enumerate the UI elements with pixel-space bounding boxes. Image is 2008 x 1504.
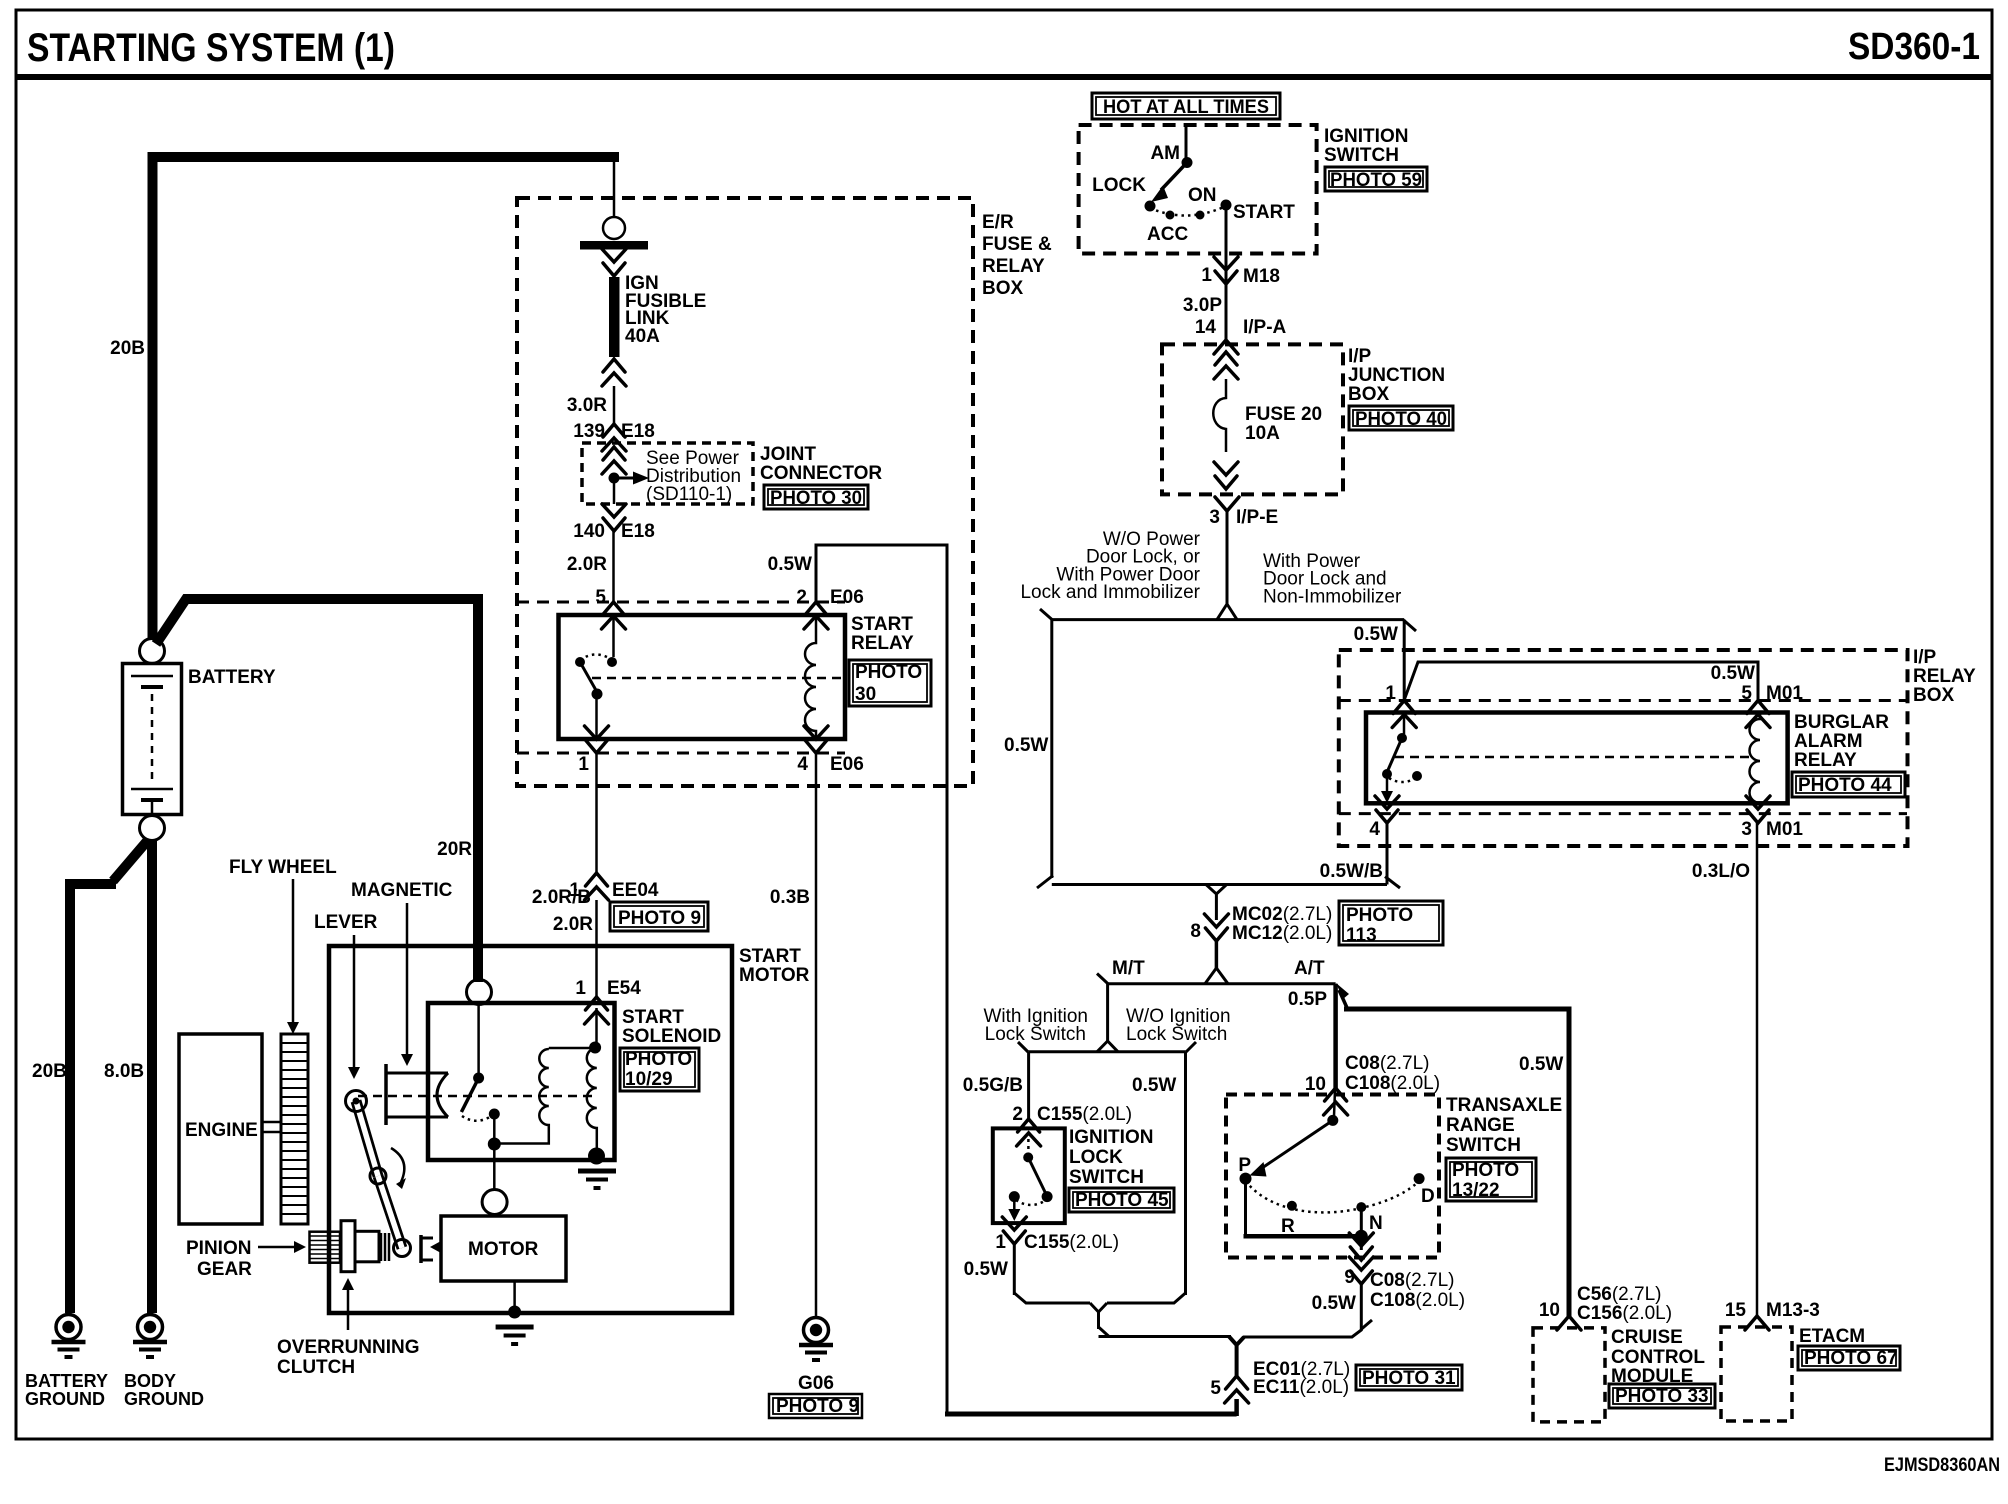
PHOTO 40 box — [1349, 406, 1453, 430]
connector 2 C155 — [1017, 1119, 1041, 1146]
svg-text:C155(2.0L): C155(2.0L) — [1024, 1232, 1119, 1253]
svg-text:RELAY: RELAY — [982, 256, 1045, 277]
fuse output chevrons — [1214, 462, 1238, 489]
corner tick — [1362, 1320, 1373, 1329]
svg-text:SWITCH: SWITCH — [1446, 1135, 1521, 1156]
wire 3.0R — [613, 386, 616, 424]
svg-text:GEAR: GEAR — [197, 1259, 252, 1280]
wire 8.0B to body ground (thick) — [147, 840, 157, 1313]
connector pin 1 — [585, 726, 609, 753]
svg-text:4: 4 — [1369, 819, 1380, 840]
branch fork — [1217, 604, 1237, 620]
connector 14 I/P-A — [1214, 340, 1238, 354]
busbar — [580, 241, 648, 250]
connector 8 MC02/MC12 — [1204, 914, 1228, 941]
transaxle range switch box (dashed) — [1226, 1095, 1439, 1258]
svg-text:Lock Switch: Lock Switch — [985, 1024, 1086, 1045]
node circle at fusible link input — [613, 160, 616, 217]
svg-text:2.0R/B: 2.0R/B — [532, 887, 591, 908]
start solenoid box — [428, 1003, 615, 1160]
PHOTO 30 box (start relay) — [849, 660, 931, 706]
svg-text:BURGLAR: BURGLAR — [1794, 712, 1889, 733]
svg-text:I/P-E: I/P-E — [1236, 507, 1278, 528]
svg-text:BOX: BOX — [1913, 685, 1955, 706]
connector 140 E18 — [602, 504, 626, 531]
bus end ticks — [1018, 1042, 1196, 1052]
svg-text:0.5W: 0.5W — [1519, 1054, 1563, 1075]
svg-text:RANGE: RANGE — [1446, 1115, 1515, 1136]
overrunning clutch body — [341, 1221, 389, 1272]
title bar separator line — [15, 74, 1993, 80]
burglar relay coil — [1750, 712, 1761, 803]
connector chevrons below fusible link — [602, 359, 626, 386]
merge tick left — [1037, 876, 1053, 889]
E/R fuse and relay box (dashed) — [517, 198, 973, 786]
N junction dot — [1355, 1230, 1368, 1243]
svg-text:(SD110-1): (SD110-1) — [646, 484, 732, 505]
svg-text:PHOTO 67: PHOTO 67 — [1804, 1348, 1898, 1369]
battery — [123, 664, 182, 816]
fusible link IGN 40A (solid bar) — [609, 277, 620, 357]
ignition lock switch box — [993, 1128, 1065, 1223]
svg-text:RELAY: RELAY — [1913, 666, 1976, 687]
svg-text:PHOTO: PHOTO — [1452, 1160, 1519, 1181]
svg-text:0.5W: 0.5W — [768, 554, 812, 575]
svg-text:HOT AT ALL TIMES: HOT AT ALL TIMES — [1103, 97, 1269, 118]
svg-text:IGNITION: IGNITION — [1069, 1127, 1153, 1148]
transaxle switch internals — [1240, 1090, 1425, 1212]
start relay internal dashed line — [592, 677, 843, 680]
svg-text:Lock Switch: Lock Switch — [1126, 1024, 1227, 1045]
svg-text:13/22: 13/22 — [1452, 1180, 1500, 1201]
pinion gear (hatched) — [310, 1232, 341, 1263]
svg-text:3.0P: 3.0P — [1183, 295, 1222, 316]
engine-flywheel link — [262, 1121, 281, 1124]
svg-text:ENGINE: ENGINE — [185, 1120, 258, 1141]
burglar relay switch — [1381, 712, 1422, 803]
connector pin 5 — [602, 602, 626, 629]
svg-text:PHOTO: PHOTO — [1346, 905, 1413, 926]
wire 20B battery positive feed (thick) — [153, 152, 620, 640]
magnetic plunger bracket — [386, 1064, 448, 1125]
connector 3 I/P-E — [1215, 497, 1239, 511]
svg-text:A/T: A/T — [1294, 958, 1325, 979]
burglar relay internal dashed line — [1395, 756, 1750, 759]
svg-text:FUSE 20: FUSE 20 — [1245, 404, 1322, 425]
svg-text:PINION: PINION — [186, 1238, 251, 1259]
HOT AT ALL TIMES box — [1092, 93, 1280, 119]
svg-text:20R: 20R — [437, 839, 472, 860]
svg-text:M01: M01 — [1766, 683, 1803, 704]
svg-text:C08(2.7L): C08(2.7L) — [1370, 1270, 1455, 1291]
svg-text:0.5W: 0.5W — [1312, 1293, 1356, 1314]
PHOTO 113 box — [1339, 901, 1443, 945]
PHOTO 67 box — [1798, 1346, 1900, 1370]
svg-text:M/T: M/T — [1112, 958, 1145, 979]
M01 upper connector row (dashed) — [1339, 699, 1907, 702]
PHOTO 59 box — [1325, 167, 1427, 191]
start relay coil — [805, 615, 816, 739]
PHOTO 13/22 box — [1446, 1158, 1536, 1201]
joint connector internals — [602, 447, 626, 474]
connector 9 C08/C108 — [1349, 1257, 1373, 1284]
svg-text:R: R — [1281, 1216, 1295, 1237]
wire from START contact — [1225, 205, 1228, 284]
I/P relay box (dashed) — [1339, 650, 1908, 846]
svg-text:START: START — [622, 1007, 684, 1028]
svg-text:I/P-A: I/P-A — [1243, 317, 1287, 338]
svg-text:10: 10 — [1305, 1074, 1326, 1095]
PHOTO 33 box — [1609, 1384, 1715, 1408]
svg-text:2.0R: 2.0R — [567, 554, 607, 575]
svg-text:15: 15 — [1725, 1300, 1747, 1321]
wire 3.0P — [1225, 284, 1228, 340]
svg-text:BOX: BOX — [982, 278, 1024, 299]
svg-text:D: D — [1421, 1186, 1435, 1207]
svg-text:0.5W/B: 0.5W/B — [1320, 861, 1383, 882]
svg-text:EJMSD8360AN: EJMSD8360AN — [1884, 1455, 2000, 1476]
ignition lock fork — [1097, 1041, 1118, 1052]
svg-text:113: 113 — [1346, 925, 1377, 946]
wire 0.5W/B from pin 4 — [1386, 823, 1389, 885]
svg-text:2.0R: 2.0R — [553, 914, 593, 935]
svg-text:START: START — [851, 614, 913, 635]
svg-text:JUNCTION: JUNCTION — [1348, 365, 1445, 386]
connector pin 1 — [1392, 701, 1416, 728]
svg-text:3: 3 — [1209, 507, 1220, 528]
svg-text:START: START — [739, 946, 801, 967]
svg-text:20B: 20B — [110, 338, 145, 359]
joint connector box (dashed) — [582, 443, 753, 504]
svg-text:ALARM: ALARM — [1794, 731, 1863, 752]
ignition lock switch internals — [1008, 1132, 1052, 1221]
wire 2.0R to start relay — [612, 531, 615, 602]
body ground symbol — [133, 1315, 167, 1358]
svg-text:Lock and Immobilizer: Lock and Immobilizer — [1020, 582, 1200, 603]
svg-text:RELAY: RELAY — [851, 633, 914, 654]
svg-text:E/R: E/R — [982, 212, 1014, 233]
engine box — [179, 1034, 262, 1224]
merge bus wire 0.5W/0.5WB — [1052, 883, 1387, 886]
motor box — [441, 1216, 566, 1281]
wire from connector 9 to EC01 funnel — [1243, 1284, 1361, 1337]
ignition switch box (dashed) — [1079, 125, 1317, 254]
svg-text:M13-3: M13-3 — [1766, 1300, 1820, 1321]
I/P junction box (dashed) — [1162, 344, 1343, 494]
PHOTO 10/29 box — [620, 1048, 699, 1091]
svg-text:10A: 10A — [1245, 423, 1280, 444]
svg-text:M01: M01 — [1766, 819, 1803, 840]
wire 0.3L/O from pin 3 to ETACM — [1756, 823, 1759, 1316]
wire connector 5 to bottom loop — [1234, 1399, 1239, 1416]
coil top junction dot — [589, 1042, 601, 1054]
branch left tick — [1040, 609, 1053, 620]
svg-text:BATTERY: BATTERY — [25, 1371, 108, 1391]
PHOTO 9 box (EE04) — [610, 902, 708, 931]
wire 2.0R to E54 — [595, 900, 598, 997]
svg-text:PHOTO 9: PHOTO 9 — [776, 1396, 859, 1417]
left 0.5W branch wire — [1050, 620, 1053, 878]
ignition lock left wire 0.5G/B — [1027, 1052, 1030, 1119]
W/O ignition lock wire — [1184, 1052, 1187, 1295]
svg-text:C08(2.7L): C08(2.7L) — [1345, 1053, 1430, 1074]
svg-text:SWITCH: SWITCH — [1324, 145, 1399, 166]
svg-text:TRANSAXLE: TRANSAXLE — [1446, 1095, 1562, 1116]
svg-text:10: 10 — [1539, 1300, 1560, 1321]
svg-text:IGNITION: IGNITION — [1324, 126, 1408, 147]
ignition switch internals — [1145, 125, 1232, 220]
svg-text:1: 1 — [578, 754, 589, 775]
connector 1 EE04 — [585, 873, 609, 900]
battery ground symbol — [52, 1315, 86, 1358]
label W/O Power Door Lock, or With Power Door Lock and Immobilizer — [1020, 529, 1200, 603]
junction box input chevrons — [1214, 352, 1238, 379]
solenoid internal dashed axis — [358, 1095, 592, 1098]
svg-text:PHOTO 9: PHOTO 9 — [618, 908, 701, 929]
svg-text:SWITCH: SWITCH — [1069, 1167, 1144, 1188]
svg-text:START: START — [1233, 202, 1295, 223]
svg-text:PHOTO: PHOTO — [855, 662, 922, 683]
svg-text:I/P: I/P — [1913, 647, 1937, 668]
svg-text:LEVER: LEVER — [314, 912, 378, 933]
wire 20B to battery ground (thick) — [70, 840, 148, 1313]
svg-text:PHOTO: PHOTO — [625, 1049, 692, 1070]
motor ground symbol — [496, 1327, 534, 1344]
solenoid switch — [461, 1004, 500, 1151]
svg-text:1: 1 — [575, 978, 586, 999]
svg-text:JOINT: JOINT — [760, 444, 816, 465]
svg-text:20B: 20B — [32, 1061, 67, 1082]
start relay box — [559, 615, 846, 739]
svg-text:5: 5 — [595, 587, 606, 608]
svg-text:0.5P: 0.5P — [1288, 989, 1327, 1010]
coil bottom ground dot — [588, 1148, 605, 1165]
svg-text:CONTROL: CONTROL — [1611, 1347, 1705, 1368]
svg-text:E54: E54 — [607, 978, 641, 999]
svg-text:2: 2 — [796, 587, 807, 608]
svg-text:140: 140 — [573, 521, 605, 542]
solenoid pull coil (right) — [587, 1008, 597, 1151]
branch right tick — [1404, 620, 1417, 631]
fork left tick — [1097, 974, 1108, 985]
svg-text:C156(2.0L): C156(2.0L) — [1577, 1303, 1672, 1324]
svg-text:BODY: BODY — [124, 1371, 176, 1391]
pinion shaft fork — [421, 1235, 441, 1263]
wire 0.3B from pin4 to G06 — [815, 753, 818, 1317]
PHOTO 31 box — [1356, 1365, 1462, 1390]
svg-text:C56(2.7L): C56(2.7L) — [1577, 1284, 1662, 1305]
svg-text:PHOTO 45: PHOTO 45 — [1075, 1190, 1169, 1211]
wire from I/P-E to branch — [1226, 511, 1229, 606]
svg-text:0.5W: 0.5W — [1354, 624, 1398, 645]
M/T A/T fork — [1205, 968, 1228, 984]
svg-text:0.3L/O: 0.3L/O — [1692, 861, 1750, 882]
branch bus wire — [1052, 618, 1404, 621]
wire 0.5W below ignition lock switch — [1013, 1244, 1016, 1295]
svg-text:0.5W: 0.5W — [1004, 735, 1048, 756]
svg-text:139: 139 — [573, 421, 605, 442]
svg-text:G06: G06 — [798, 1373, 834, 1394]
merge tick right — [1385, 877, 1400, 889]
ETACM box (dashed) — [1721, 1327, 1792, 1421]
svg-text:5: 5 — [1210, 1378, 1221, 1399]
svg-text:M18: M18 — [1243, 266, 1280, 287]
svg-text:C108(2.0L): C108(2.0L) — [1370, 1290, 1465, 1311]
connector pin 4 E06 — [804, 726, 828, 753]
svg-text:PHOTO 40: PHOTO 40 — [1355, 409, 1447, 430]
svg-text:CRUISE: CRUISE — [1611, 1327, 1683, 1348]
svg-text:FLY WHEEL: FLY WHEEL — [229, 857, 337, 878]
svg-text:Non-Immobilizer: Non-Immobilizer — [1263, 586, 1402, 607]
0.5W thick feed wire to cruise control — [1344, 1009, 1569, 1316]
start relay switch — [575, 615, 617, 739]
connector pin 3 M01 — [1746, 796, 1770, 823]
connector pin 2 E06 — [804, 602, 828, 629]
svg-text:9: 9 — [1344, 1267, 1355, 1288]
fuse 20 symbol — [1213, 379, 1226, 452]
connector 1 E54 — [585, 997, 609, 1024]
EC01 funnel — [1229, 1337, 1244, 1377]
fork bus wire — [1108, 982, 1336, 985]
svg-text:1: 1 — [995, 1232, 1006, 1253]
label With Power Door Lock and Non-Immobilizer — [1263, 551, 1402, 607]
motor node circle — [493, 1150, 496, 1191]
svg-text:5: 5 — [1741, 683, 1752, 704]
svg-text:E18: E18 — [621, 521, 655, 542]
svg-text:I/P: I/P — [1348, 346, 1372, 367]
P to N wire — [1244, 1183, 1247, 1236]
connector 5 EC01/EC11 — [1225, 1376, 1249, 1403]
connector 1 M18 — [1214, 257, 1238, 284]
svg-text:E18: E18 — [621, 421, 655, 442]
E06 connector row (dashed) — [517, 601, 845, 604]
N output wire — [1360, 1236, 1363, 1250]
svg-text:0.5W: 0.5W — [964, 1259, 1008, 1280]
svg-text:GROUND: GROUND — [25, 1389, 105, 1409]
svg-text:10/29: 10/29 — [625, 1069, 673, 1090]
svg-text:3.0R: 3.0R — [567, 395, 607, 416]
connector 15 M13-3 — [1745, 1316, 1769, 1330]
svg-text:PHOTO 44: PHOTO 44 — [1798, 775, 1892, 796]
svg-text:EC11(2.0L): EC11(2.0L) — [1253, 1377, 1349, 1398]
svg-text:E06: E06 — [830, 754, 864, 775]
battery bottom terminal node — [140, 816, 165, 841]
svg-text:1: 1 — [1201, 265, 1212, 286]
svg-text:GROUND: GROUND — [124, 1389, 204, 1409]
right 0.5W branch wire — [1403, 620, 1406, 701]
svg-text:FUSE &: FUSE & — [982, 234, 1052, 255]
connector pin 4 — [1375, 796, 1399, 823]
svg-text:4: 4 — [797, 754, 808, 775]
svg-text:8: 8 — [1190, 921, 1201, 942]
svg-text:OVERRUNNING: OVERRUNNING — [277, 1337, 420, 1358]
svg-text:PHOTO 33: PHOTO 33 — [1615, 1386, 1709, 1407]
svg-text:2: 2 — [1012, 1104, 1023, 1125]
svg-text:SOLENOID: SOLENOID — [622, 1026, 721, 1047]
svg-text:RELAY: RELAY — [1794, 750, 1857, 771]
svg-text:C155(2.0L): C155(2.0L) — [1037, 1104, 1132, 1125]
lever rotation arrow — [391, 1148, 404, 1182]
PHOTO 30 box (joint connector) — [764, 485, 868, 509]
wire 2.0R/B down to EE04 — [595, 753, 598, 873]
svg-text:ON: ON — [1188, 185, 1217, 206]
svg-text:CONNECTOR: CONNECTOR — [760, 463, 882, 484]
ignition lock bus wire — [1029, 1050, 1186, 1053]
bus to EC01 funnel — [1099, 1335, 1232, 1338]
A/T wire down to C08 — [1333, 984, 1338, 1088]
merge funnel to MC02 — [1206, 885, 1227, 921]
svg-text:C108(2.0L): C108(2.0L) — [1345, 1073, 1440, 1094]
burglar alarm relay box — [1366, 713, 1788, 804]
svg-text:ACC: ACC — [1147, 224, 1188, 245]
svg-text:0.5G/B: 0.5G/B — [963, 1075, 1023, 1096]
ground G06 — [799, 1318, 833, 1361]
M/T wire down — [1106, 984, 1109, 1043]
svg-text:MOTOR: MOTOR — [468, 1239, 539, 1260]
svg-text:3: 3 — [1741, 819, 1752, 840]
svg-text:EE04: EE04 — [612, 880, 659, 901]
PHOTO 9 box (G06) — [769, 1394, 862, 1418]
E06 lower connector row (dashed) — [517, 752, 845, 755]
A/T branch arrow to 0.5W feed — [1339, 990, 1348, 1010]
svg-text:0.3B: 0.3B — [770, 887, 810, 908]
M01 lower connector row (dashed) — [1339, 812, 1907, 815]
svg-text:AM: AM — [1150, 143, 1180, 164]
solenoid ground symbol — [578, 1171, 616, 1188]
0.5W loop wire from pin2 over to EC01 connector — [816, 545, 947, 1414]
svg-text:MOTOR: MOTOR — [739, 965, 810, 986]
svg-text:BATTERY: BATTERY — [188, 667, 276, 688]
bottom loop wire (thick) — [945, 1412, 1237, 1417]
svg-text:MAGNETIC: MAGNETIC — [351, 880, 453, 901]
svg-text:14: 14 — [1195, 317, 1217, 338]
solenoid hold coil (left) — [498, 1048, 595, 1144]
fly wheel (hatched) — [281, 1034, 308, 1224]
svg-text:CLUTCH: CLUTCH — [277, 1357, 355, 1378]
svg-text:LOCK: LOCK — [1069, 1147, 1123, 1168]
svg-text:1: 1 — [1385, 683, 1396, 704]
svg-text:ETACM: ETACM — [1799, 1326, 1865, 1347]
svg-text:PHOTO 30: PHOTO 30 — [770, 488, 862, 509]
wire battery to 20R feed (thick) — [156, 599, 478, 982]
battery top terminal node — [140, 639, 165, 664]
svg-text:P: P — [1238, 1155, 1251, 1176]
motor ground wire — [513, 1281, 516, 1313]
svg-text:30: 30 — [855, 684, 876, 705]
svg-text:MC12(2.0L): MC12(2.0L) — [1232, 923, 1332, 944]
svg-text:PHOTO 31: PHOTO 31 — [1362, 1368, 1456, 1389]
0.5W jumper wire pin1 to pin5 — [1404, 662, 1758, 700]
svg-text:0.5W: 0.5W — [1132, 1075, 1176, 1096]
svg-text:E06: E06 — [830, 587, 864, 608]
svg-text:8.0B: 8.0B — [104, 1061, 144, 1082]
shift lever — [346, 1091, 411, 1257]
connector 139 E18 — [602, 424, 626, 451]
chevron at box bottom — [1349, 1233, 1373, 1260]
cruise control module box (dashed) — [1533, 1328, 1605, 1422]
20R node circle — [467, 980, 492, 1005]
svg-text:PHOTO 59: PHOTO 59 — [1330, 170, 1422, 191]
svg-text:SD360-1: SD360-1 — [1848, 26, 1980, 68]
connector 10 C56/C156 — [1557, 1316, 1581, 1330]
svg-text:1: 1 — [569, 880, 580, 901]
svg-text:40A: 40A — [625, 326, 660, 347]
connector chevrons below busbar — [602, 249, 626, 276]
svg-text:0.5W: 0.5W — [1711, 663, 1755, 684]
svg-text:MC02(2.7L): MC02(2.7L) — [1232, 904, 1332, 925]
svg-text:N: N — [1369, 1213, 1383, 1234]
PHOTO 44 box — [1792, 772, 1905, 797]
